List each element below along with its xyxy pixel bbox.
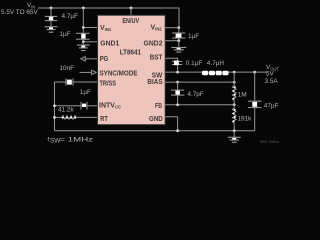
capacitor C4 1uF (INTVCC) [55,102,98,110]
wire FB pin [165,104,234,106]
node junction VIN rail / C1 [50,7,53,10]
node junction bus/INTVCC [53,104,56,107]
node junction BIAS/divider [233,81,236,84]
svg-text:1µF: 1µF [80,89,91,96]
wire GND pin [165,117,177,131]
wire BST pin [165,58,177,61]
svg-text:4.7µH: 4.7µH [207,60,225,67]
node junction VIN rail / EN-UV stub [130,7,133,10]
node VOUT label [265,64,280,85]
svg-text:1M: 1M [238,91,247,98]
node junction FB/4.7pF [176,103,179,106]
node junction GND1 [82,40,85,43]
svg-text:5.5V TO 65V: 5.5V TO 65V [1,9,38,16]
wire VOUT net [228,71,267,73]
wire VIN1 pin [83,27,97,29]
svg-text:BIAS: BIAS [147,79,162,86]
node junction VIN2 [177,26,180,29]
wire PG pin with output arrow [81,57,98,61]
wire EN/UV stub [130,8,132,15]
svg-text:INTVCC: INTVCC [99,103,121,110]
svg-text:SYNC/MODE: SYNC/MODE [100,70,138,77]
svg-text:VIN1: VIN1 [100,25,112,32]
inductor L1 4.7uH [202,71,229,76]
ground (GND2) [171,41,186,52]
wire VIN1 branch [82,8,84,33]
svg-text:47µF: 47µF [264,103,279,110]
svg-text:1µF: 1µF [188,33,199,40]
capacitor C8 47uF (output) [248,72,261,131]
svg-text:10nF: 10nF [60,65,75,72]
wire SYNC/MODE pin with input arrow [80,70,97,74]
capacitor C3 10nF (TR/SS) [55,78,98,85]
node VIN label [1,2,38,16]
capacitor C7 4.7pF [171,82,184,105]
svg-text:PG: PG [100,56,109,63]
wire GND1 pin [83,41,97,43]
svg-text:= 1MHz: = 1MHz [60,136,94,143]
node junction VIN1 [82,26,85,29]
svg-text:1µF: 1µF [60,31,71,38]
svg-text:GND: GND [149,116,163,123]
svg-text:191k: 191k [238,116,253,123]
svg-text:3.5A: 3.5A [265,78,279,85]
svg-text:4.7pF: 4.7pF [187,91,203,98]
wire GND2 pin [165,40,179,42]
node junction rail/191k [233,129,236,132]
wire SW pin [165,71,202,73]
node junction bus/RT [53,116,56,119]
node junction SW/BST cap [176,71,179,74]
wire divider top (VOUT to 1M) [233,72,235,85]
capacitor C5 1uF (VIN2) [172,28,185,41]
op-amp U1 LT8641 IC body [98,15,166,125]
wire VIN2 pin [165,27,179,29]
svg-text:BST: BST [150,55,163,62]
svg-text:GND1: GND1 [100,40,119,47]
svg-text:41.2k: 41.2k [58,107,74,114]
svg-text:4.7µF: 4.7µF [62,13,79,20]
svg-text:VIN2: VIN2 [151,25,163,32]
resistor R1 1M [232,86,236,105]
node junction GND2 [177,39,180,42]
ground (input cap) [45,27,58,32]
svg-text:0.1µF: 0.1µF [186,60,203,67]
svg-text:TR/SS: TR/SS [100,80,117,87]
node junction BIAS/4.7pF [176,81,179,84]
svg-text:EN/UV: EN/UV [122,18,139,25]
capacitor C1 4.7uF [45,8,57,26]
wire bottom ground rail [55,130,255,132]
node junction rail/GND pin [176,129,179,132]
svg-text:8641 TA01a: 8641 TA01a [260,140,279,144]
node junction FB/divider [233,103,236,106]
svg-text:FB: FB [155,103,162,110]
wire BIAS pin [165,81,234,83]
ground (bottom rail) [228,131,241,143]
capacitor C2 1uF (VIN1) [76,33,90,42]
svg-text:GND2: GND2 [144,40,163,47]
ground (GND1) [77,42,90,51]
label fSW = 1MHz [47,136,93,144]
wire left ground bus [54,82,56,131]
resistor R3 41.2k (RT) [55,116,98,120]
node junction VOUT/COUT [253,71,256,74]
capacitor C6 0.1uF (BST) [172,61,182,73]
node junction VIN rail / VIN1 branch [82,7,85,10]
svg-text:LT8641: LT8641 [120,50,141,57]
node junction VOUT/divider [233,71,236,74]
svg-text:RT: RT [100,116,108,123]
wire VIN top rail [38,8,179,28]
resistor R2 191k [232,105,236,131]
svg-text:5V: 5V [266,71,275,78]
